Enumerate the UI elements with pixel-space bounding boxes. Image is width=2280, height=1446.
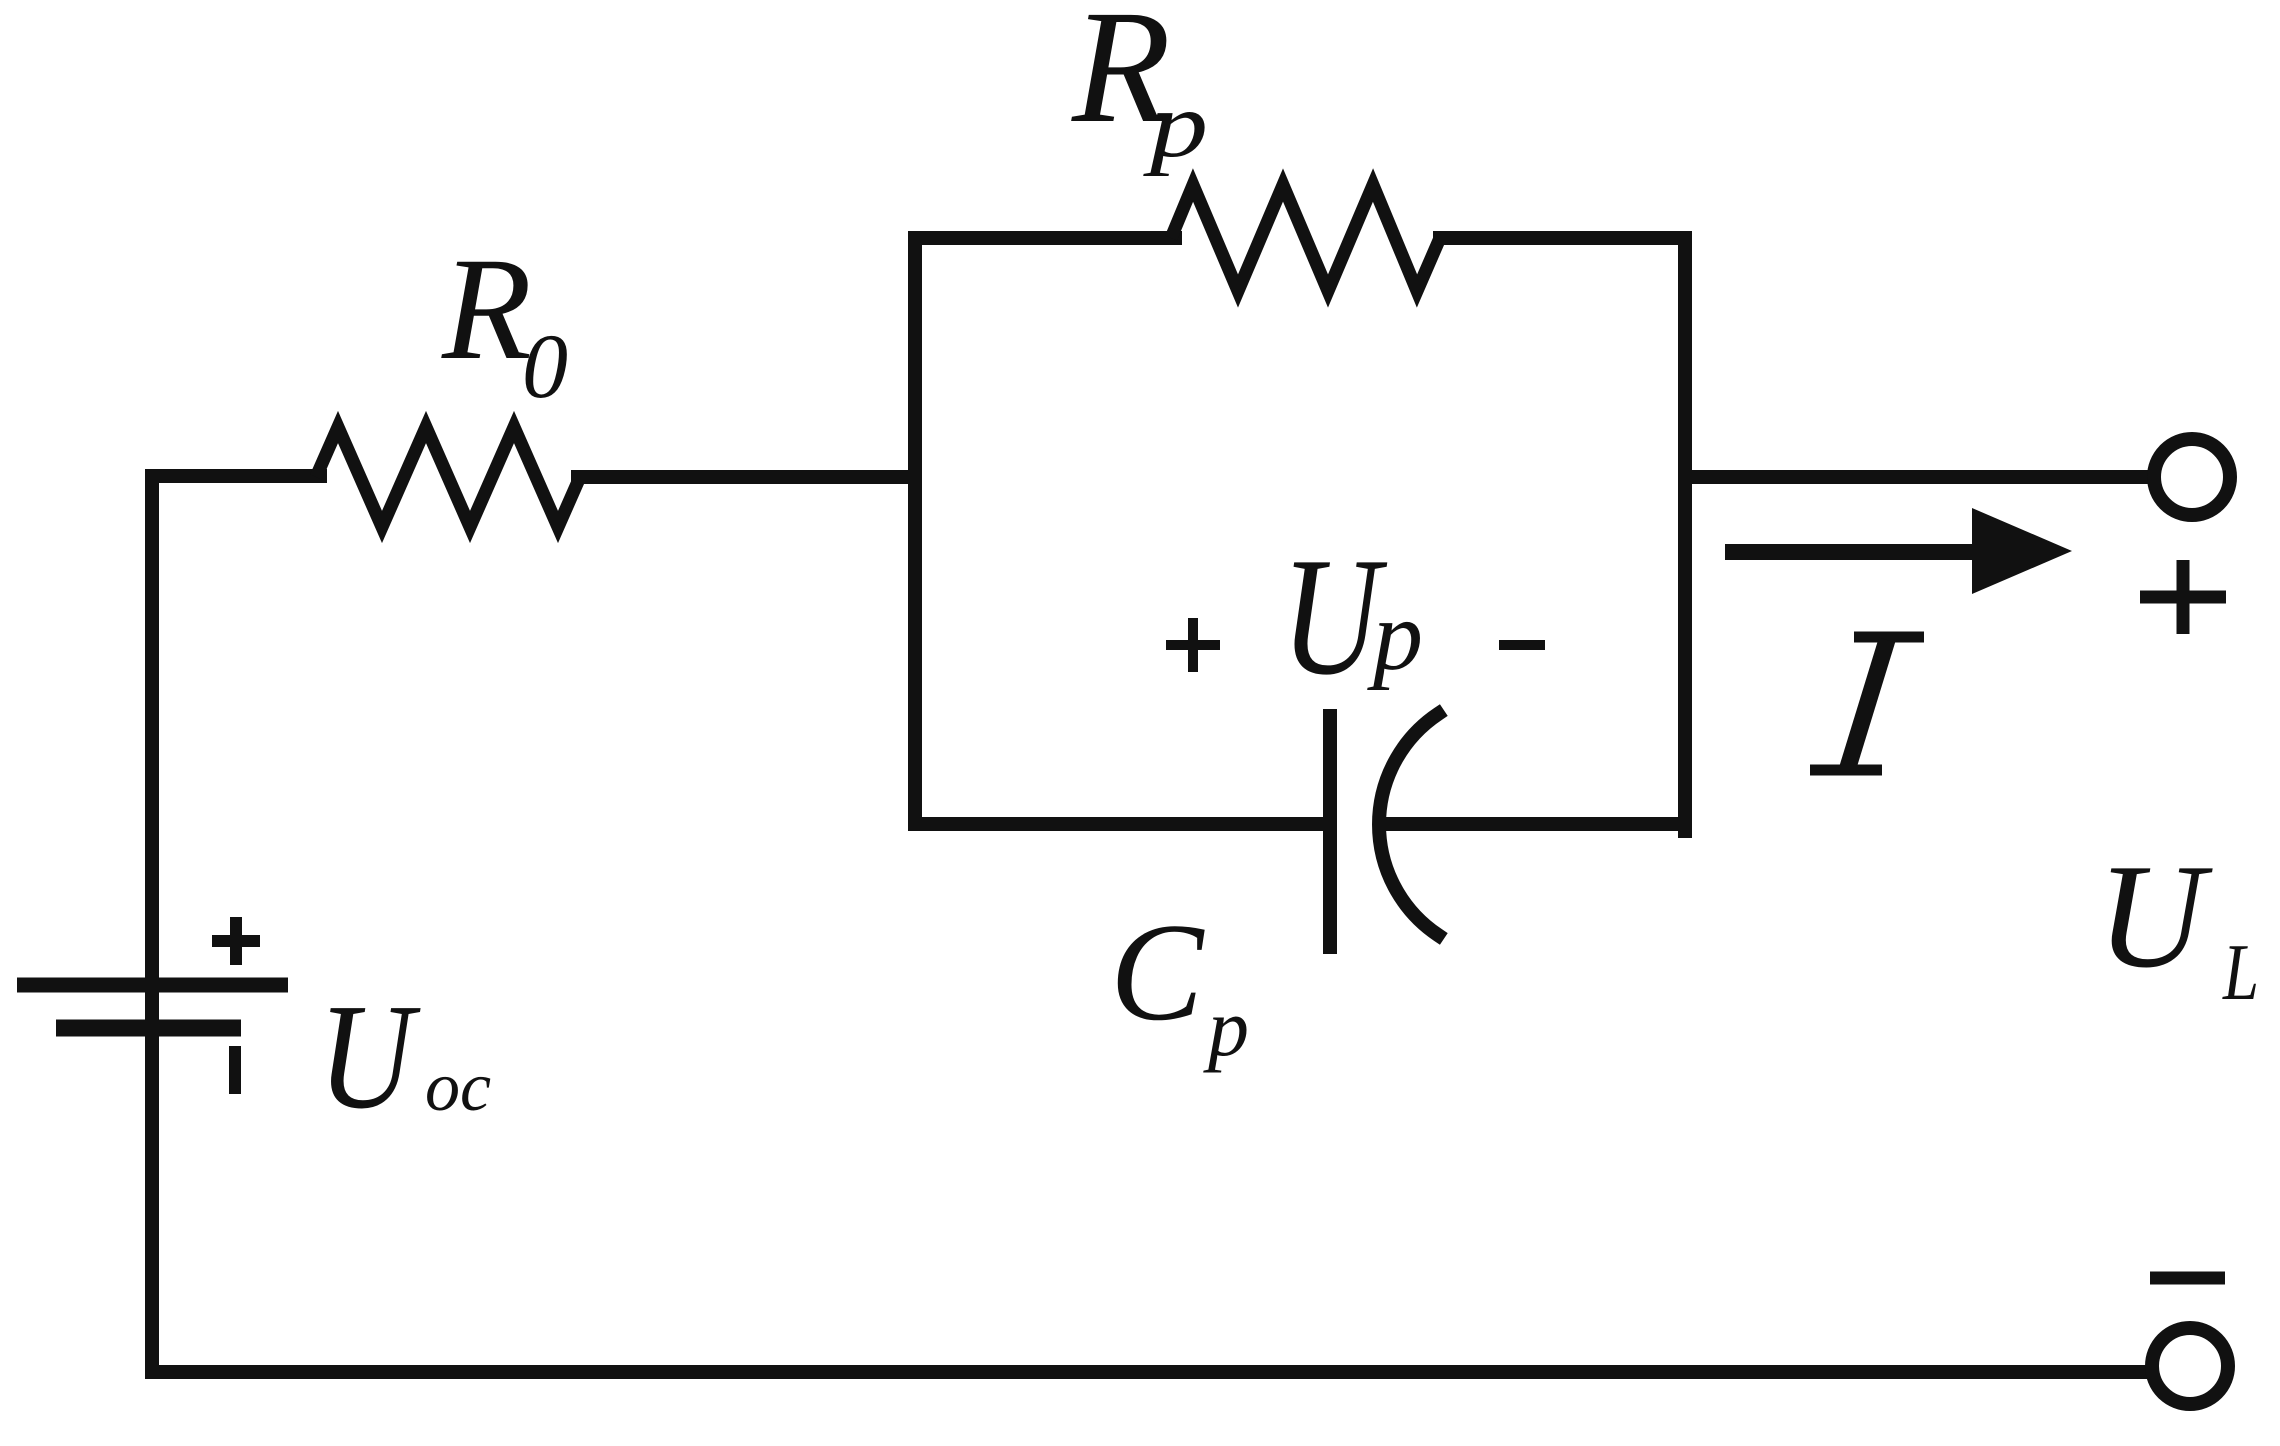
current arrow I shaft [1725,544,1990,560]
label plus at positive terminal [2140,560,2226,634]
svg-text:U: U [2097,834,2213,999]
svg-text:U: U [318,973,421,1140]
svg-text:p: p [1203,982,1249,1073]
label UL [2097,834,2259,1017]
svg-text:p: p [1142,73,1208,176]
current arrow I head [1972,508,2072,594]
label Up [1281,524,1423,711]
wire: box left vertical [908,238,922,824]
terminal: positive output [2154,439,2230,515]
battery U_oc long positive plate [17,978,288,993]
label Up minus sign [1499,640,1545,650]
svg-text:oc: oc [425,1049,491,1126]
label Up plus sign [1166,618,1220,672]
svg-text:R: R [441,227,532,390]
svg-text:U: U [1281,524,1388,711]
battery plus sign [212,917,260,965]
wire: box top-right segment [1440,231,1685,245]
wire: box top-left segment [915,231,1175,245]
resistor R0 [316,427,580,527]
svg-text:p: p [1367,580,1423,691]
label Rp [1071,0,1208,176]
capacitor Cp left plate [1323,716,1337,947]
label minus at negative terminal [2150,1272,2225,1285]
wire: top-left horizontal [152,469,320,483]
wire: R0 to box left node [578,470,915,484]
wire: bottom [152,1365,2145,1379]
wire: box right vertical [1678,238,1692,831]
wire: output top [1685,470,2147,484]
label I [1810,637,1924,770]
wire: box bottom-left segment [915,817,1326,831]
label Cp [1110,895,1249,1073]
resistor Rp [1171,185,1440,291]
label U_oc [318,973,491,1140]
battery U_oc short negative plate [56,1020,241,1037]
svg-text:L: L [2222,927,2259,1016]
wire: box bottom-right segment [1392,817,1685,831]
capacitor Cp right plate arc [1379,714,1438,935]
battery minus mark [229,1046,241,1094]
svg-text:C: C [1110,895,1205,1050]
label R0 [441,227,568,417]
terminal: negative output [2152,1328,2228,1404]
wire: left vertical [145,476,159,1372]
svg-text:0: 0 [522,315,568,417]
